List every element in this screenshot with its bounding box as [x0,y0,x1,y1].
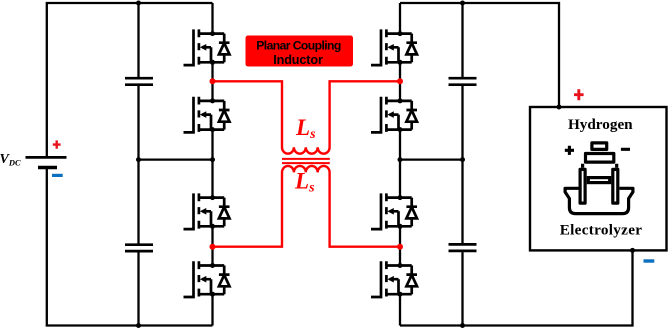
svg-text:Electrolyzer: Electrolyzer [560,221,643,238]
battery VDC positive plate [26,156,67,159]
electrolyzer icon electrode left [580,169,585,203]
capacitor C2 [125,245,153,251]
wire right leg segment 1 [399,3,401,34]
wire left leg segment 2 [211,62,213,101]
battery minus sign [52,174,63,177]
hydrogen electrolyzer box [530,107,667,250]
wire left capacitor rail middle [137,86,139,244]
wire left leg segment 5 [211,294,213,325]
electrolyzer icon vessel [565,188,633,213]
node left cap rail midpoint [136,157,141,162]
node left leg midpoint [210,157,215,162]
node right cap rail midpoint [460,157,465,162]
node bottom rail / left cap rail [136,323,141,328]
electrolyzer icon electrode right [613,169,618,203]
wire left leg segment 1 [211,3,213,34]
node left bridge output top [210,78,216,84]
svg-text:Inductor: Inductor [273,53,323,67]
node top rail / right cap rail [460,1,465,6]
node bottom rail / right cap rail [460,323,465,328]
transistor Q3 [184,193,230,229]
callout box planar coupling inductor [246,36,354,67]
battery VDC negative plate [38,166,57,169]
wire left capacitor rail upper [137,3,139,77]
wire right capacitor rail middle [461,86,463,243]
wire right midpoint link [400,158,463,160]
node right bridge input top [397,78,403,84]
wire right leg segment 3 [399,130,401,198]
wire right top rail [400,3,559,107]
electrolyzer icon crossbar [588,178,609,183]
capacitor C1 [125,78,153,85]
wire right leg segment 5 [399,294,401,325]
node right bridge input bottom [397,244,403,250]
wire left leg segment 3 [211,130,213,198]
wire right capacitor rail lower [461,252,463,325]
wire left capacitor rail lower [137,252,139,325]
electrolyzer icon cell body [586,154,614,163]
node right leg midpoint [398,157,403,162]
transistor Q8 [371,261,417,297]
inductor core [282,159,330,163]
capacitor C3 [449,78,477,85]
electrolyzer icon connector stubs [583,164,617,168]
wire left leg segment 4 [211,226,213,265]
transistor Q2 [184,97,230,133]
capacitor C4 [449,244,477,251]
transistor Q4 [184,261,230,297]
wire battery top rail [47,3,213,157]
wire left midpoint link [139,158,213,160]
inductor Ls primary winding [213,81,401,153]
electrolyzer icon minus [621,148,630,151]
wire right leg segment 4 [399,226,401,265]
electrolyzer minus sign [644,259,655,262]
inductor Ls secondary winding [213,166,401,247]
transistor Q6 [371,97,417,133]
wire right capacitor rail upper [461,3,463,77]
electrolyzer icon plus [565,146,574,155]
node electrolyzer negative terminal [630,248,635,253]
transistor Q1 [184,29,230,65]
svg-text:Hydrogen: Hydrogen [568,116,633,133]
node top rail / left cap rail [136,1,141,6]
node electrolyzer positive terminal [557,105,562,110]
node left bridge output bottom [210,244,216,250]
transistor Q7 [371,193,417,229]
battery plus sign [53,140,61,148]
wire right leg segment 2 [399,62,401,101]
electrolyzer plus sign [574,89,584,100]
electrolyzer icon cell cap [592,143,607,150]
wire right bottom rail [400,250,633,325]
transistor Q5 [371,29,417,65]
svg-text:Planar Coupling: Planar Coupling [256,39,341,53]
wire battery bottom rail [47,168,213,326]
